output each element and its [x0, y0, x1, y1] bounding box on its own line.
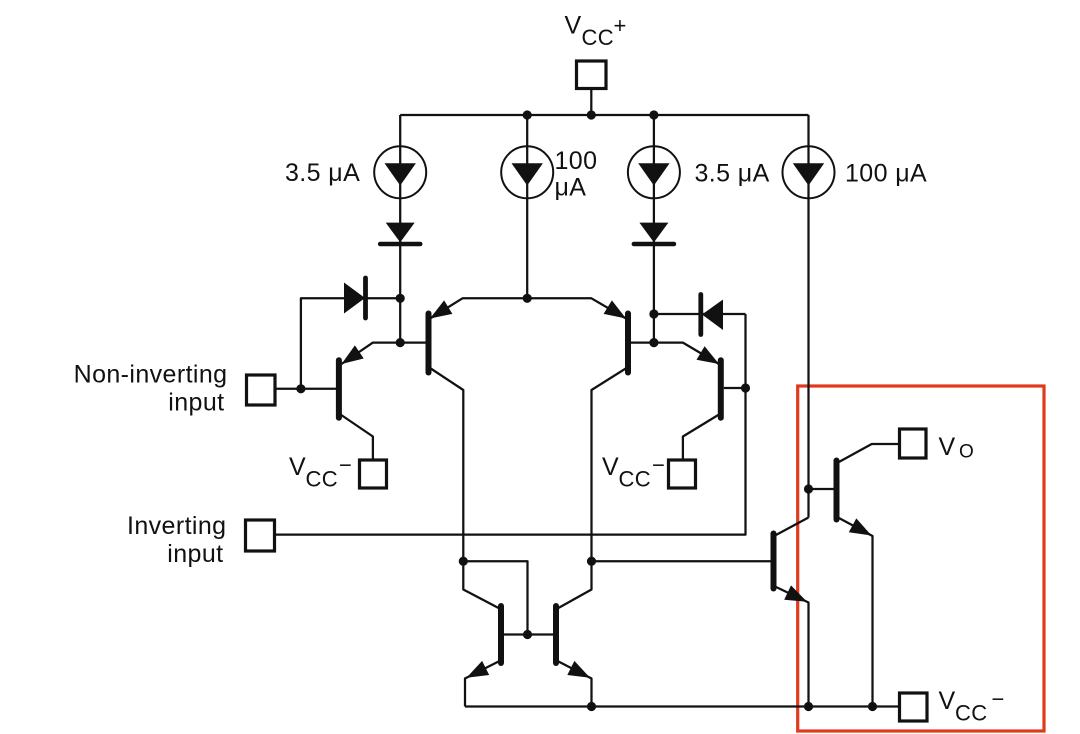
wire right clamp diode branch	[654, 313, 746, 315]
wire Q4 base	[724, 387, 746, 389]
wire Q1 emitter	[342, 343, 401, 364]
wire Q8 collector	[838, 444, 900, 463]
node Q3 collector / mirror output	[587, 557, 596, 566]
diode D2	[639, 223, 668, 243]
node rail Q8 emitter	[868, 702, 877, 711]
label VO	[939, 433, 975, 463]
svg-text:input: input	[167, 540, 223, 568]
node left clamp junction	[396, 294, 405, 303]
node Q8 base junction	[804, 484, 813, 493]
svg-text:V: V	[289, 453, 306, 481]
node rail Q6 emitter	[587, 702, 596, 711]
svg-text:+: +	[614, 13, 627, 38]
terminal VCC- middle	[669, 460, 696, 488]
svg-text:CC: CC	[582, 25, 615, 50]
transistor Q5	[467, 606, 502, 678]
wire mirror base tie	[463, 561, 527, 634]
wire Q5 Q6 base link	[504, 633, 553, 635]
wire Q3 base	[631, 341, 654, 343]
svg-text:CC: CC	[955, 701, 988, 726]
wire top supply rail	[400, 114, 808, 116]
label VCC+ top	[565, 12, 627, 51]
transistor Q3	[604, 300, 628, 372]
transistor Q8	[837, 461, 872, 536]
svg-text:100: 100	[555, 147, 598, 175]
terminal VCC- bottom right	[900, 693, 928, 721]
svg-text:V: V	[602, 453, 619, 481]
wire Q6 emitter	[558, 661, 592, 707]
current source I2 100uA	[501, 146, 553, 198]
node rail-I3 junction	[649, 110, 658, 119]
transistor Q6	[556, 606, 590, 678]
terminal VCC+	[577, 61, 607, 89]
wire column current source I2	[526, 115, 528, 298]
wire bottom rail	[465, 705, 900, 707]
current source I1 3.5uA	[374, 146, 426, 198]
svg-text:100 μA: 100 μA	[845, 160, 927, 188]
node Q2 collector / mirror input	[459, 557, 468, 566]
svg-text:V: V	[565, 12, 582, 40]
node rail Q7 emitter	[804, 702, 813, 711]
svg-text:−: −	[992, 687, 1005, 712]
wire Q8 base	[809, 488, 834, 490]
svg-text:V: V	[939, 687, 956, 715]
label VCC- middle	[602, 453, 665, 492]
wire Q2 collector	[430, 368, 463, 561]
wire Q7 base line	[592, 560, 771, 562]
node non-inverting input	[296, 384, 305, 393]
diode D3 left clamp	[344, 278, 366, 318]
svg-text:O: O	[959, 442, 974, 463]
label inverting input	[127, 512, 227, 568]
wire left clamp diode branch	[301, 298, 400, 389]
node rail-stem junction	[587, 110, 596, 119]
transistor Q1	[339, 345, 364, 417]
output stage red box	[798, 386, 1044, 731]
wire Q7 emitter	[775, 587, 809, 707]
wire Q2 base	[400, 341, 425, 343]
terminal non-inverting input	[247, 375, 276, 405]
value label 100 uA (I2)	[555, 147, 598, 202]
node Q1 emitter / Q2 base	[396, 338, 405, 347]
wire Q1 collector	[341, 415, 373, 461]
wire Q8 emitter	[838, 518, 873, 707]
transistor Q4	[697, 346, 721, 418]
terminal inverting input	[246, 520, 275, 551]
wire Q5 collector	[463, 561, 499, 608]
wire inverting input line	[275, 314, 746, 535]
wire column current source I1	[399, 115, 401, 343]
wire Q4 emitter	[654, 343, 719, 364]
svg-text:3.5 μA: 3.5 μA	[695, 160, 770, 188]
wire Q1 base	[275, 388, 337, 390]
wire column current source I4	[807, 115, 809, 518]
wire Q6 collector	[558, 561, 592, 608]
label non-inverting input	[74, 361, 228, 417]
terminal VCC- left	[360, 460, 387, 488]
wire Q3 collector	[592, 368, 627, 561]
svg-text:μA: μA	[555, 174, 587, 202]
svg-text:CC: CC	[306, 467, 339, 492]
node mirror common base	[523, 630, 532, 639]
wire emitter rail of Q2 Q3	[430, 298, 626, 318]
wire column current source I3	[653, 115, 655, 343]
terminal VO	[900, 429, 927, 458]
node Q4 emitter / Q3 base	[649, 338, 658, 347]
wire VCC+ stem	[590, 89, 592, 115]
svg-text:Inverting: Inverting	[127, 512, 227, 540]
diode D1	[386, 223, 415, 243]
svg-text:V: V	[939, 433, 956, 461]
label VCC- left	[289, 453, 352, 492]
node rail-I2 junction	[523, 110, 532, 119]
node emitter rail I2 junction	[523, 294, 532, 303]
wire Q5 emitter	[465, 661, 500, 707]
svg-text:input: input	[168, 389, 224, 417]
svg-text:3.5 μA: 3.5 μA	[285, 159, 360, 187]
svg-text:−: −	[652, 453, 665, 478]
diode D4 right clamp	[701, 295, 723, 335]
svg-text:−: −	[339, 453, 352, 478]
wire Q7 collector	[775, 518, 809, 536]
label VCC- bottom right	[939, 687, 1005, 726]
current source I3 3.5uA	[628, 146, 680, 198]
node right clamp junction	[649, 309, 658, 318]
svg-text:Non-inverting: Non-inverting	[74, 361, 228, 389]
svg-text:CC: CC	[619, 467, 652, 492]
transistor Q2	[429, 300, 453, 372]
node Q4 base / inverting riser	[741, 383, 750, 392]
wire Q4 collector	[683, 415, 719, 461]
current source I4 100uA	[783, 146, 835, 198]
transistor Q7	[774, 534, 808, 602]
